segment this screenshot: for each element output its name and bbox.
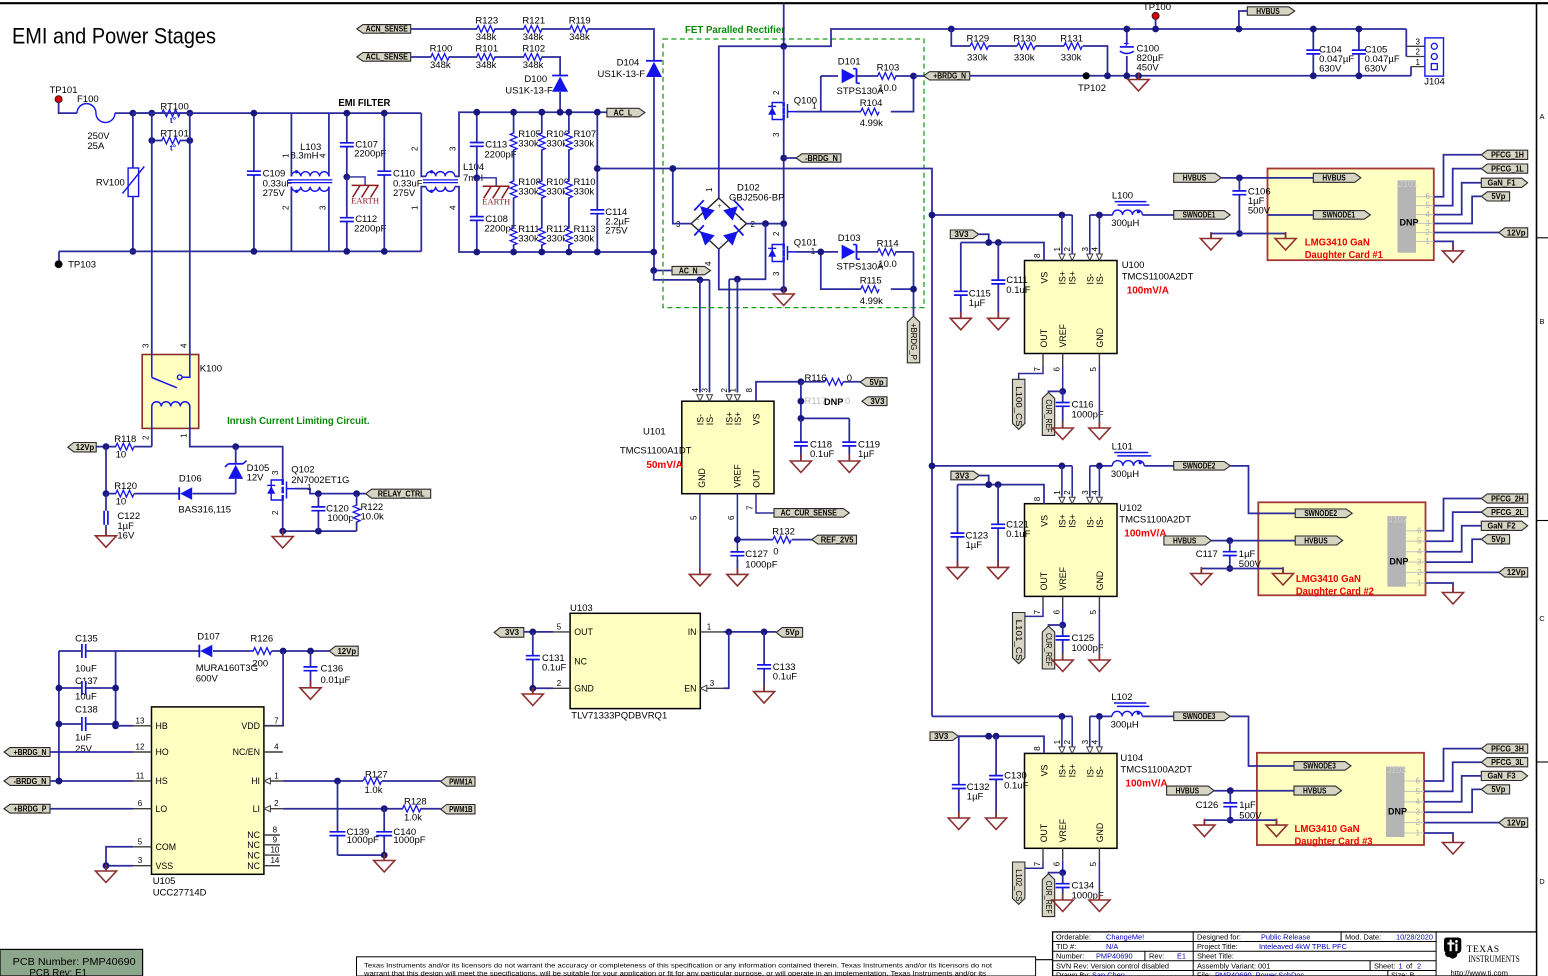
U105 pin 7 VDD: [264, 725, 283, 727]
svg-text:R102: R102: [522, 44, 545, 55]
svg-text:C136: C136: [321, 664, 344, 675]
svg-text:NC: NC: [247, 861, 260, 871]
resistor R114: [857, 251, 914, 253]
ground card pin1 channel 3: [1452, 836, 1454, 843]
wire IS+ tap 2 to U101: [736, 279, 738, 392]
svg-text:PWM1A: PWM1A: [449, 777, 473, 786]
svg-text:3V3: 3V3: [955, 471, 970, 480]
svg-text:4: 4: [1090, 490, 1099, 495]
ground inside card channel 2: [1282, 567, 1284, 574]
svg-text:3V3: 3V3: [870, 397, 885, 406]
svg-text:IS+: IS+: [1057, 514, 1067, 527]
PCB number box: [0, 949, 143, 976]
wire U101 VS to R116 node: [756, 382, 801, 401]
svg-text:1.0k: 1.0k: [404, 813, 422, 824]
svg-text:8.3mH: 8.3mH: [291, 151, 319, 162]
svg-text:2: 2: [772, 90, 781, 95]
svg-text:275V: 275V: [263, 188, 286, 199]
svg-text:warrant that this design will: warrant that this design will meet the s…: [363, 970, 986, 976]
svg-text:VSS: VSS: [156, 861, 174, 871]
ground C111 channel 1: [997, 312, 999, 319]
svg-text:Drawn By:: Drawn By:: [1056, 971, 1090, 976]
svg-text:PFCG_2H: PFCG_2H: [1491, 494, 1524, 503]
svg-text:DNP: DNP: [1399, 218, 1418, 228]
net label +BRDG_P at LO: [4, 804, 50, 813]
svg-text:VREF: VREF: [732, 464, 742, 488]
capacitor C134: [1062, 873, 1064, 900]
svg-text:0.1uF: 0.1uF: [773, 672, 797, 683]
svg-text:TMCS1100A1DT: TMCS1100A1DT: [620, 446, 692, 457]
testpoint TP101: [55, 96, 62, 103]
node rail channel 2: [929, 463, 936, 470]
net label L101_CS: [1013, 613, 1025, 664]
wire ACL_SENSE row: [411, 57, 560, 76]
svg-text:L101_CS: L101_CS: [1014, 620, 1023, 661]
svg-text:1: 1: [1053, 490, 1062, 495]
svg-text:NC/EN: NC/EN: [233, 747, 260, 757]
svg-text:348k: 348k: [430, 60, 451, 71]
svg-text:1: 1: [812, 102, 817, 111]
svg-text:IS-: IS-: [695, 414, 705, 425]
wire Q101 gate node: [796, 251, 838, 253]
svg-text:275V: 275V: [605, 226, 628, 237]
current sensor U101 TMCS1100A1DT: [682, 401, 774, 494]
svg-text:R121: R121: [522, 16, 545, 27]
ground C122: [105, 529, 107, 536]
ground card pin1 channel 2: [1452, 586, 1454, 593]
svg-text:San Chen: San Chen: [1092, 971, 1125, 976]
U105 pin 3 VSS: [133, 865, 152, 867]
svg-text:OUT: OUT: [1039, 823, 1049, 842]
ground C121 channel 2: [997, 561, 999, 568]
wire ACN_SENSE row: [411, 29, 654, 61]
wire HVBUS rail: [951, 28, 1406, 30]
svg-text:t°: t°: [170, 115, 177, 125]
capacitor C104: [1312, 29, 1314, 76]
wire IS+ tap 1 to U101: [728, 279, 730, 392]
resistor R127: [364, 777, 381, 785]
svg-text:R123: R123: [475, 16, 498, 27]
relay K100 contact: [151, 355, 153, 378]
wire channel 1 input row: [932, 214, 1072, 216]
wire card SWNODE2 entry: [1230, 466, 1295, 514]
resistor R119: [571, 25, 588, 33]
svg-text:2: 2: [141, 435, 150, 440]
earth symbol 1: [343, 174, 350, 181]
svg-text:TID #:: TID #:: [1056, 942, 1076, 951]
capacitor C105: [1358, 29, 1360, 76]
svg-text:DNP: DNP: [824, 397, 843, 407]
ground C133: [763, 685, 765, 692]
svg-text:4.99k: 4.99k: [860, 296, 883, 307]
svg-text:2: 2: [1416, 818, 1421, 827]
wire card pin 5 to PFCG_1L: [1434, 169, 1482, 206]
resistor R121: [524, 25, 541, 33]
svg-text:10uF: 10uF: [75, 664, 97, 675]
svg-text:MURA160T3G: MURA160T3G: [196, 663, 258, 674]
svg-text:CUR_REF: CUR_REF: [1044, 633, 1053, 666]
transistor Q102: [271, 480, 283, 500]
relay K100: [142, 355, 199, 429]
wire D106 to D105: [193, 493, 236, 495]
svg-text:IS-: IS-: [1095, 273, 1105, 284]
varistor RV100: [132, 113, 134, 168]
svg-text:TP102: TP102: [1078, 83, 1106, 94]
ground C127: [736, 560, 738, 574]
svg-text:J104: J104: [1424, 77, 1445, 88]
svg-text:J101: J101: [1399, 179, 1418, 189]
sheet right border: [1536, 3, 1538, 976]
svg-text:HO: HO: [156, 747, 169, 757]
wire card pin 6 to PFCG_3H: [1424, 749, 1481, 781]
svg-text:VS: VS: [752, 413, 762, 425]
svg-text:1000pF: 1000pF: [393, 835, 425, 846]
wire card pin 5 to PFCG_2L: [1426, 512, 1482, 541]
svg-text:1: 1: [1053, 739, 1062, 744]
net label 12Vp channel 3: [1499, 818, 1528, 827]
svg-text:1uF: 1uF: [75, 733, 92, 744]
svg-text:3: 3: [772, 271, 781, 276]
wire card pin 4 to GaN_F2: [1426, 526, 1482, 552]
svg-text:+: +: [1123, 39, 1129, 50]
wire 12Vp to R120 row: [105, 447, 107, 494]
svg-text:VREF: VREF: [1058, 818, 1068, 842]
svg-text:STPS130A: STPS130A: [837, 86, 885, 97]
capacitor C119: [848, 418, 850, 461]
wire U101 VREF pin: [736, 494, 738, 562]
svg-text:FET Paralled Rectifier: FET Paralled Rectifier: [685, 25, 785, 36]
capacitor C113: [476, 112, 478, 178]
svg-text:ACL_SENSE: ACL_SENSE: [366, 53, 408, 62]
svg-text:Assembly Variant: 001: Assembly Variant: 001: [1197, 961, 1270, 970]
svg-text:4.99k: 4.99k: [860, 118, 883, 129]
svg-text:330k: 330k: [518, 187, 539, 198]
capacitor C133: [763, 632, 765, 692]
wire Q100 source to -BRDG_N: [783, 118, 785, 225]
svg-text:HVBUS: HVBUS: [1173, 536, 1196, 545]
resistor R102: [524, 53, 541, 61]
svg-text:330k: 330k: [546, 233, 567, 244]
relay K100 coil: [151, 407, 153, 429]
svg-text:PCB Number: PMP40690: PCB Number: PMP40690: [13, 957, 137, 968]
svg-text:348k: 348k: [523, 32, 544, 43]
svg-text:OUT: OUT: [1039, 328, 1049, 347]
svg-text:K100: K100: [200, 364, 222, 375]
svg-text:10: 10: [116, 497, 127, 508]
resistor R130: [989, 45, 1018, 47]
svg-text:U101: U101: [643, 427, 666, 438]
svg-text:GND: GND: [574, 684, 594, 694]
svg-text:3: 3: [448, 146, 457, 151]
svg-text:NC: NC: [574, 656, 587, 666]
svg-text:INSTRUMENTS: INSTRUMENTS: [1468, 954, 1520, 964]
svg-text:2200pF: 2200pF: [354, 148, 386, 159]
daughter card LMG3410 #1: [1268, 169, 1434, 261]
svg-text:HVBUS: HVBUS: [1256, 7, 1279, 16]
svg-text:Number:: Number:: [1056, 952, 1084, 961]
svg-text:SWNODE2: SWNODE2: [1304, 509, 1337, 518]
svg-text:1: 1: [705, 187, 714, 192]
svg-text:10.0: 10.0: [878, 83, 897, 94]
U104 VREF pin wire: [1062, 848, 1064, 861]
svg-text:4: 4: [318, 153, 327, 158]
net label ACL_SENSE: [357, 53, 411, 62]
svg-text:PFCG_3H: PFCG_3H: [1491, 744, 1524, 753]
capacitor C123 channel 2: [957, 485, 959, 568]
svg-text:TP103: TP103: [68, 259, 96, 270]
svg-text:L100_CS: L100_CS: [1014, 386, 1023, 426]
zone tick A/B: [1537, 237, 1548, 239]
svg-text:8: 8: [1033, 253, 1042, 258]
svg-text:SWNODE1: SWNODE1: [1183, 211, 1216, 220]
svg-text:NC: NC: [247, 830, 260, 840]
wire channel 2 IS- to inductor: [1090, 465, 1113, 467]
svg-text:9: 9: [273, 835, 278, 844]
svg-text:Sheet Title:: Sheet Title:: [1197, 952, 1234, 961]
wire card HVBUS entry: [1258, 540, 1295, 542]
wire 3V3 to VS row channel 1: [979, 234, 989, 242]
svg-text:R127: R127: [365, 769, 388, 780]
U105 pin 8 NC: [264, 834, 280, 836]
svg-text:US1K-13-F: US1K-13-F: [598, 69, 646, 80]
svg-text:Daughter Card #1: Daughter Card #1: [1305, 250, 1383, 261]
svg-text:+BRDG_P: +BRDG_P: [909, 323, 918, 360]
svg-text:HVBUS: HVBUS: [1303, 786, 1326, 795]
svg-text:348k: 348k: [476, 32, 497, 43]
resistor R106: [541, 112, 543, 252]
U102 pins and labels: [1061, 466, 1063, 497]
capacitor C117: [1229, 541, 1231, 569]
svg-text:10.0k: 10.0k: [361, 512, 384, 523]
wire card pin 4 to GaN_F3: [1424, 776, 1481, 802]
net label +BRDG_N at HO: [4, 748, 50, 757]
wire bridge pin1 to HV rail: [719, 29, 952, 198]
wire Q100 gate node: [796, 76, 821, 112]
wire card HVBUS entry: [1268, 177, 1314, 179]
wire card ground row channel 2: [1201, 569, 1283, 574]
svg-text:R114: R114: [877, 238, 899, 249]
svg-text:2: 2: [1417, 961, 1421, 970]
ground C132 channel 3: [958, 812, 960, 819]
resistor R108: [510, 182, 518, 198]
svg-text:4: 4: [704, 261, 713, 266]
svg-text:7: 7: [274, 716, 279, 725]
net label HVBUS in card: [1294, 786, 1342, 795]
svg-text:2: 2: [1063, 490, 1072, 495]
U104 pins and labels: [1061, 716, 1063, 746]
svg-text:t°: t°: [170, 142, 177, 152]
svg-text:4: 4: [1090, 739, 1099, 744]
wire AC_L top rail: [133, 112, 421, 114]
svg-text:2200pF: 2200pF: [354, 223, 386, 234]
svg-text:2: 2: [1416, 48, 1421, 57]
ground U104 GND: [1098, 894, 1100, 901]
svg-text:6: 6: [1053, 609, 1062, 614]
capacitor C120: [317, 494, 319, 531]
svg-text:12V: 12V: [247, 473, 265, 484]
svg-text:5Vp: 5Vp: [785, 628, 799, 637]
svg-text:PCB Rev: E1: PCB Rev: E1: [29, 968, 87, 976]
sheet bottom border segment: [1036, 959, 1053, 961]
svg-text:1: 1: [1417, 579, 1422, 588]
ground Q102: [282, 531, 284, 536]
svg-text:IN: IN: [688, 627, 697, 637]
wire HVBUS to card channel 2: [1211, 540, 1258, 542]
U100 VREF pin wire: [1062, 354, 1064, 367]
wire card SWNODE3 entry: [1230, 716, 1294, 766]
capacitor C115 channel 1: [960, 243, 962, 319]
svg-text:2200pF: 2200pF: [484, 150, 516, 161]
svg-text:2: 2: [1417, 568, 1422, 577]
net label SWNODE3 outer: [1174, 712, 1231, 721]
U102 OUT pin wire to L101_CS: [1042, 596, 1044, 609]
svg-text:12Vp: 12Vp: [1507, 228, 1526, 237]
net label 3V3 at R117: [862, 397, 887, 406]
svg-text:C135: C135: [75, 634, 98, 645]
wire L104 pin4 to cell2 bottom rail: [455, 187, 654, 252]
net label +BRDG_N rectifier: [924, 72, 970, 80]
svg-text:STPS130A: STPS130A: [837, 262, 885, 273]
svg-text:330k: 330k: [1061, 53, 1082, 64]
wire card pin 2 to 12Vp: [1424, 822, 1499, 824]
svg-text:1: 1: [1416, 58, 1421, 67]
svg-text:3: 3: [701, 388, 710, 393]
svg-text:6: 6: [1053, 367, 1062, 372]
svg-text:EARTH: EARTH: [482, 196, 510, 206]
ground C130 channel 3: [995, 812, 997, 819]
svg-text:R130: R130: [1013, 34, 1036, 45]
ground C134: [1062, 894, 1064, 901]
svg-text:3: 3: [710, 679, 715, 688]
resistor R112: [538, 229, 546, 245]
svg-text:NC: NC: [247, 840, 260, 850]
svg-text:3: 3: [1417, 558, 1422, 567]
wire U101 GND pin: [699, 494, 701, 575]
svg-text:D101: D101: [838, 57, 861, 68]
svg-text:2: 2: [772, 231, 781, 236]
ldo U103 TLV71333PQDBVRQ1: [570, 613, 700, 708]
svg-text:TMCS1100A2DT: TMCS1100A2DT: [1120, 764, 1192, 775]
svg-text:13: 13: [136, 716, 145, 725]
earth symbol 2: [473, 174, 480, 181]
wire D101 row: [821, 75, 838, 77]
svg-text:3V3: 3V3: [955, 230, 970, 239]
svg-text:25V: 25V: [75, 744, 93, 755]
svg-text:3V3: 3V3: [505, 628, 520, 637]
wire R126 to 12Vp: [272, 650, 330, 652]
svg-text:330k: 330k: [574, 233, 595, 244]
svg-text:IS+: IS+: [733, 412, 743, 425]
svg-text:Size: B: Size: B: [1391, 971, 1414, 976]
svg-text:6: 6: [1417, 526, 1422, 535]
net label CUR_REF channel 3: [1049, 873, 1063, 874]
ground C125: [1062, 654, 1064, 661]
svg-text:CUR_REF: CUR_REF: [1044, 881, 1053, 914]
wire channel 3 IS- to inductor: [1090, 715, 1112, 717]
U100 OUT pin wire to L100_CS: [1042, 354, 1044, 367]
svg-text:C: C: [1539, 614, 1545, 623]
svg-text:8: 8: [273, 826, 278, 835]
wire VS row channel 3: [959, 736, 1044, 753]
resistor R111: [510, 229, 518, 245]
svg-text:IS-: IS-: [1085, 273, 1095, 284]
U105 pin 11 HS: [133, 780, 152, 782]
net label 3V3 channel 3: [930, 732, 959, 741]
svg-text:630V: 630V: [1365, 63, 1388, 74]
svg-text:6: 6: [727, 515, 736, 520]
svg-text:Texas Instruments and/or its l: Texas Instruments and/or its licensors d…: [364, 962, 992, 969]
svg-text:6: 6: [1425, 192, 1430, 201]
svg-text:D107: D107: [197, 632, 220, 643]
net label 5Vp at R116: [860, 378, 887, 387]
svg-text:100mV/A: 100mV/A: [1125, 778, 1167, 789]
Texas Instruments logo: [1444, 938, 1461, 959]
svg-text:GaN_F1: GaN_F1: [1487, 179, 1516, 188]
svg-text:R103: R103: [877, 63, 900, 74]
svg-text:R100: R100: [430, 44, 453, 55]
svg-text:1µF: 1µF: [966, 540, 983, 551]
resistor R120: [106, 493, 116, 495]
svg-text:C117: C117: [1196, 549, 1218, 560]
resistor R109: [538, 182, 546, 198]
svg-text:TLV71333PQDBVRQ1: TLV71333PQDBVRQ1: [571, 711, 667, 722]
svg-text:RT100: RT100: [160, 101, 188, 112]
resistor R115: [821, 252, 861, 289]
capacitor C125: [1062, 625, 1064, 660]
svg-text:R119: R119: [569, 16, 591, 27]
svg-text:2N7002ET1G: 2N7002ET1G: [291, 475, 349, 486]
wire COM/VSS to ground: [106, 847, 133, 866]
net label PFCG_2L: [1481, 508, 1527, 517]
wire IS- tap 2 to U101: [709, 280, 711, 393]
svg-text:330k: 330k: [1014, 53, 1035, 64]
net label CUR_REF channel 1: [1049, 391, 1063, 392]
wire IS- tap 1 to U101: [699, 280, 701, 393]
svg-text:8: 8: [1033, 496, 1042, 501]
net label PFCG_3H: [1481, 744, 1527, 753]
svg-text:PFCG_2L: PFCG_2L: [1491, 508, 1524, 517]
svg-text:3: 3: [1081, 490, 1090, 495]
svg-text:Project Title:: Project Title:: [1197, 942, 1238, 951]
svg-text:C126: C126: [1196, 800, 1219, 811]
svg-text:2: 2: [271, 510, 280, 515]
svg-text:GND: GND: [697, 468, 707, 488]
svg-text:6: 6: [138, 799, 143, 808]
capacitor C107: [346, 113, 348, 177]
svg-text:R132: R132: [772, 527, 795, 538]
svg-text:PFCG_3L: PFCG_3L: [1491, 758, 1524, 767]
svg-text:AC_L: AC_L: [614, 108, 633, 117]
svg-text:of: of: [1406, 961, 1413, 970]
capacitor C126: [1229, 791, 1231, 820]
svg-text:R129: R129: [967, 34, 990, 45]
svg-text:0.1uF: 0.1uF: [1006, 285, 1030, 296]
resistor R101: [477, 53, 494, 61]
wire AC_N stub: [654, 270, 672, 272]
net label SWNODE1 in card: [1313, 211, 1370, 220]
wire card pin 5 to PFCG_3L: [1424, 762, 1481, 791]
inductor L102: [1112, 711, 1142, 716]
svg-text:12Vp: 12Vp: [1507, 568, 1526, 577]
ground outside card channel 3: [1203, 819, 1205, 826]
svg-text:U102: U102: [1119, 503, 1142, 514]
wire bridge pin3 drop: [673, 169, 691, 224]
svg-text:1µF: 1µF: [969, 298, 986, 309]
U105 pin 2 LI: [264, 808, 283, 810]
svg-text:PWM1B: PWM1B: [449, 805, 473, 814]
title block frame: [1053, 932, 1537, 976]
svg-text:J102: J102: [1388, 515, 1407, 525]
